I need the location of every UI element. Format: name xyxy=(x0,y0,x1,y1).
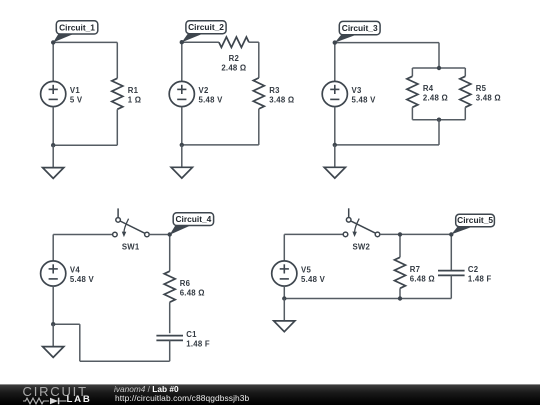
wire: C5 top-left to switch xyxy=(284,233,343,235)
svg-text:V1: V1 xyxy=(70,86,80,95)
svg-text:3.48 Ω: 3.48 Ω xyxy=(269,95,294,104)
svg-text:5 V: 5 V xyxy=(70,96,83,105)
svg-text:R4: R4 xyxy=(423,84,434,93)
svg-text:V2: V2 xyxy=(199,86,209,95)
ground: circuit 3 xyxy=(324,145,345,178)
wire: R7 bottom stub xyxy=(399,288,401,298)
wire: C1 bottom rail xyxy=(53,144,117,146)
wire: C1 left rail top (node to V1) xyxy=(52,42,54,81)
svg-text:6.48 Ω: 6.48 Ω xyxy=(410,275,435,284)
wire: V2 bottom to node xyxy=(181,107,183,145)
label callout Circuit_2 xyxy=(182,21,226,43)
wire: R4 top stub xyxy=(411,68,413,76)
wire: C2 node to R2 xyxy=(182,41,219,43)
footer title text xyxy=(114,385,179,393)
ground: circuit 2 xyxy=(171,145,192,178)
wire: riser to V4 node xyxy=(53,323,80,325)
svg-text:R1: R1 xyxy=(128,86,139,95)
svg-text:R2: R2 xyxy=(229,54,240,63)
wire: V5 bottom to node xyxy=(283,286,285,298)
svg-text:SW1: SW1 xyxy=(122,242,140,251)
wire: junction down to bottom rail xyxy=(438,120,440,145)
svg-text:1.48 F: 1.48 F xyxy=(186,339,210,348)
voltage source V4 5.48 V xyxy=(41,261,95,286)
footer black bar xyxy=(0,384,540,405)
wire: C4 bottom-left riser xyxy=(79,324,81,361)
wire: C4 node to R6 xyxy=(169,235,171,272)
resistor R1 xyxy=(112,78,142,109)
wire: R4 bottom stub xyxy=(411,107,413,119)
svg-text:Circuit_3: Circuit_3 xyxy=(342,23,378,33)
wire: V3 bottom to node xyxy=(334,107,336,145)
svg-text:Circuit_4: Circuit_4 xyxy=(175,214,211,224)
svg-text:V4: V4 xyxy=(70,266,80,275)
wire: R5 top stub xyxy=(464,68,466,76)
wire: R6 to C1 cap xyxy=(169,302,171,333)
wire: R2 to top-right corner and down xyxy=(249,41,259,43)
ground: circuit 4 xyxy=(43,324,64,357)
wire: C1 top rail xyxy=(53,41,117,43)
label callout Circuit_5 xyxy=(451,214,494,234)
resistor R5 3.48 ohm xyxy=(460,76,501,107)
wire: C3 top rail xyxy=(335,42,439,44)
wire: C4 bottom rail xyxy=(80,360,170,362)
node: R7 bottom junction xyxy=(398,296,402,300)
svg-text:SW2: SW2 xyxy=(352,242,370,251)
svg-text:R7: R7 xyxy=(410,265,420,274)
wire: R1 bottom to bottom rail xyxy=(116,109,118,145)
svg-text:2.48 Ω: 2.48 Ω xyxy=(221,64,246,73)
switch SW2 xyxy=(343,208,380,251)
node: C3 bottom junction xyxy=(333,143,337,147)
wire: V4 bottom to node xyxy=(52,286,54,324)
svg-text:5.48 V: 5.48 V xyxy=(352,96,377,105)
wire: parallel top bar xyxy=(412,67,465,69)
svg-text:C1: C1 xyxy=(186,330,197,339)
wire: C1 right rail into R1 xyxy=(116,42,118,78)
svg-text:R6: R6 xyxy=(180,279,191,288)
resistor R7 6.48 ohm xyxy=(395,257,435,288)
wire: C5 left rail top xyxy=(283,234,285,261)
wire: R3 bottom to bottom rail xyxy=(258,109,260,145)
svg-text:R3: R3 xyxy=(269,86,280,95)
node: C1 bottom junction xyxy=(51,143,55,147)
svg-text:5.48 V: 5.48 V xyxy=(199,96,224,105)
svg-text:1 Ω: 1 Ω xyxy=(128,96,142,105)
capacitor C2 1.48 F xyxy=(438,265,492,284)
svg-text:Circuit_5: Circuit_5 xyxy=(457,215,493,225)
node: C3 top-left xyxy=(333,40,337,44)
svg-text:1.48 F: 1.48 F xyxy=(468,274,492,283)
resistor R3 3.48 ohm xyxy=(253,78,294,109)
svg-text:5.48 V: 5.48 V xyxy=(70,275,95,284)
svg-text:Circuit_1: Circuit_1 xyxy=(59,22,95,32)
wire: C2 top stub xyxy=(450,234,452,270)
resistor R6 6.48 ohm xyxy=(164,271,205,302)
svg-text:Circuit_2: Circuit_2 xyxy=(188,22,224,32)
svg-text:5.48 V: 5.48 V xyxy=(301,275,326,284)
svg-text:2.48 Ω: 2.48 Ω xyxy=(423,94,448,103)
label callout Circuit_3 xyxy=(335,21,380,42)
ground: circuit 5 xyxy=(274,299,295,332)
node: C5 label node xyxy=(449,232,453,236)
svg-text:6.48 Ω: 6.48 Ω xyxy=(180,289,205,298)
svg-text:R5: R5 xyxy=(476,84,487,93)
voltage source V1 5 V xyxy=(41,81,83,106)
switch SW1 xyxy=(113,208,150,251)
svg-text:C2: C2 xyxy=(468,265,479,274)
wire: R7 top stub xyxy=(399,234,401,257)
label callout Circuit_4 xyxy=(170,213,214,235)
wire: C3 left rail top xyxy=(334,43,336,82)
voltage source V3 5.48 V xyxy=(322,81,376,106)
node: C1 top-left xyxy=(51,40,55,44)
wire: C2 left rail top xyxy=(181,42,183,81)
node: parallel top junction xyxy=(437,66,441,70)
wire: C2 bottom stub xyxy=(450,275,452,298)
logo resistor+diode glyph xyxy=(23,397,67,405)
wire: C3 bottom rail xyxy=(335,144,439,146)
capacitor C1 1.48 F xyxy=(156,330,210,349)
wire: SW1 to node xyxy=(149,234,170,236)
CircuitLab logo wordmark CIRCUIT xyxy=(23,385,88,398)
wire: R5 bottom stub xyxy=(464,107,466,119)
wire: V1 bottom to node xyxy=(52,107,54,146)
wire: C4 top-left to switch xyxy=(53,234,112,236)
wire: C5 bottom rail xyxy=(284,298,451,300)
svg-text:3.48 Ω: 3.48 Ω xyxy=(476,94,501,103)
wire: SW2 to R7 node and C2 node xyxy=(380,233,452,235)
logo wordmark LAB xyxy=(67,395,92,405)
wire: C3 right drop to parallel top bar xyxy=(438,43,440,68)
wire: C4 left rail top xyxy=(52,235,54,262)
node: C4 bottom junction xyxy=(51,322,55,326)
resistor R4 2.48 ohm xyxy=(407,76,448,107)
voltage source V5 5.48 V xyxy=(272,261,326,286)
wire: C2 bottom rail xyxy=(182,144,259,146)
svg-text:V5: V5 xyxy=(301,266,311,275)
node: C2 top-left xyxy=(180,40,184,44)
voltage source V2 5.48 V xyxy=(169,81,223,106)
label callout Circuit_1 xyxy=(53,21,98,43)
wire: parallel bottom bar xyxy=(412,119,465,121)
svg-text:V3: V3 xyxy=(352,86,362,95)
node: parallel bottom junction xyxy=(437,118,441,122)
node: R7 top junction xyxy=(398,232,402,236)
footer url text xyxy=(115,394,249,402)
ground: circuit 1 xyxy=(43,145,64,178)
node: V5 bottom junction xyxy=(282,296,286,300)
wire: C1 cap bottom down xyxy=(169,340,171,361)
resistor R2 2.48 ohm (horizontal) xyxy=(219,37,249,73)
node: C2 bottom junction xyxy=(180,143,184,147)
node: C4 switch output xyxy=(168,232,172,236)
